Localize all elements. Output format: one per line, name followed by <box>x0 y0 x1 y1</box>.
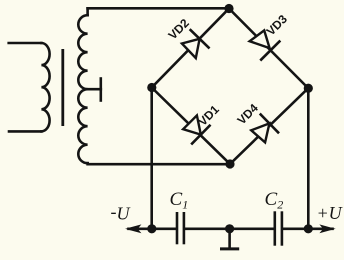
wire: rail between C1 and C2 <box>185 228 274 231</box>
wire: -U rail segment <box>129 228 177 231</box>
svg-text:+U: +U <box>317 203 343 223</box>
node: bridge bottom junction <box>225 159 234 168</box>
node: bridge top junction <box>224 4 233 13</box>
arrow +U (right) <box>321 225 334 232</box>
transformer core <box>61 49 64 126</box>
transformer T1 secondary winding <box>78 8 87 163</box>
wire: right node down to +U rail <box>307 88 310 229</box>
wire: secondary top to bridge top node <box>88 7 229 10</box>
diode VD1 <box>183 115 210 143</box>
node: bridge right junction <box>304 84 313 93</box>
transformer T1 primary winding <box>9 43 50 131</box>
wire: secondary bottom to bridge bottom node <box>88 163 230 164</box>
capacitor C1 <box>177 212 184 244</box>
wire: bridge arm left-bottom <box>152 88 230 165</box>
node: rail center junction <box>225 224 234 233</box>
node: bridge left junction <box>147 83 156 92</box>
wire: bridge arm bottom-right <box>230 88 308 164</box>
arrow -U (left) <box>127 225 140 232</box>
diode VD3 <box>250 30 280 59</box>
diode VD4 <box>251 115 278 143</box>
wire: +U rail segment <box>283 228 333 231</box>
svg-text:-U: -U <box>111 201 131 223</box>
node: rail right junction <box>304 224 313 233</box>
secondary center-tap terminal <box>88 79 101 101</box>
ground <box>220 229 239 249</box>
diode VD2 <box>182 30 209 58</box>
wire: left node down to -U rail <box>150 88 153 229</box>
capacitor C2 <box>275 211 282 245</box>
wire: bridge arm top-right <box>229 9 308 89</box>
node: rail left junction <box>147 224 156 233</box>
wire: bridge arm left-top <box>152 9 229 88</box>
